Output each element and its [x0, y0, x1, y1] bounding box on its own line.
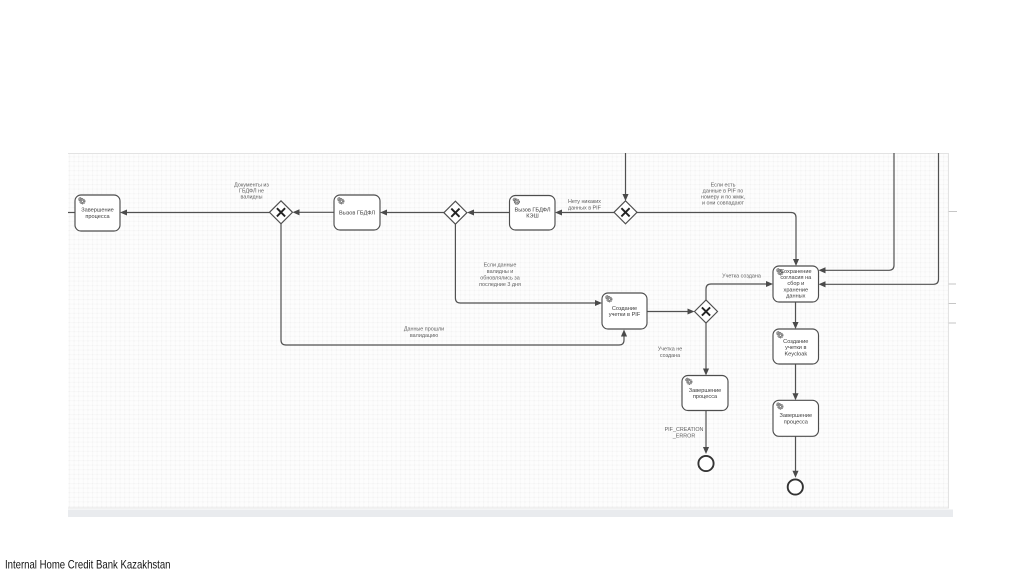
task SAVE: Сохранение согласия на сбор и хранение данных — [773, 266, 819, 302]
svg-text:процесса: процесса — [693, 394, 718, 400]
label: Если данные валидны и обновлялись за последние 3 дня — [479, 263, 521, 289]
arrowhead into task A — [120, 209, 127, 215]
label: Если есть данные в PIF по номеру и по жмж, и они совпадают — [701, 183, 746, 207]
svg-text:Вызов ГБДФЛ: Вызов ГБДФЛ — [339, 211, 375, 217]
wire G4 top then right into SAVE task left — [706, 284, 767, 300]
wire G3 right then down into SAVE task top — [637, 213, 796, 261]
wire stub into task A from canvas edge — [68, 212, 75, 214]
svg-text:и они совпадают: и они совпадают — [702, 201, 745, 207]
canvas background — [68, 153, 949, 509]
gateway G4 — [695, 300, 718, 323]
svg-text:Создание: Создание — [783, 339, 808, 345]
label: Учетка не создана — [658, 347, 682, 360]
task C: Вызов ГБДФЛ КЭШ — [510, 196, 556, 231]
wire KEY to END_R task — [795, 364, 797, 394]
svg-text:процесса: процесса — [85, 214, 110, 220]
wire G2 bottom into PIF task left — [455, 224, 596, 303]
gateway G3 — [614, 201, 637, 224]
arrowhead into G2 — [467, 209, 474, 215]
footer slide text — [0, 552, 300, 572]
wire END_L task to end event E1 — [705, 411, 707, 449]
svg-text:хранение: хранение — [784, 287, 809, 293]
wire V1 from top into SAVE task right — [825, 153, 895, 270]
task A: Завершение процесса — [75, 195, 120, 231]
svg-text:создана: создана — [660, 353, 680, 359]
arrowhead into SAVE right from V2 — [819, 281, 826, 287]
svg-text:валидацию: валидацию — [410, 333, 438, 339]
wire END_R task to end event E2 — [795, 436, 797, 471]
label: PIF_CREATION _ERROR — [665, 427, 704, 440]
right edge ticks — [949, 212, 958, 324]
arrowhead into G4 — [688, 308, 695, 314]
wire G1 bottom long path into PIF task bottom — [281, 224, 624, 345]
arrowhead into PIF left — [595, 300, 602, 306]
arrowhead into task B — [380, 209, 387, 215]
svg-text:Keycloak: Keycloak — [784, 352, 807, 358]
wire V2 from top into SAVE task right — [825, 153, 939, 284]
task PIF: Создание учетки в PIF — [602, 293, 647, 329]
arrowhead into G1 — [293, 209, 300, 215]
label: Нету никаких данных в PIF — [568, 199, 602, 212]
svg-text:данных: данных — [786, 294, 806, 300]
arrowhead into SAVE left — [766, 281, 773, 287]
label: Данные прошли валидацию — [404, 327, 444, 340]
arrowhead into PIF bottom — [621, 330, 627, 337]
wire SAVE to KEY — [795, 302, 797, 323]
svg-text:учетки в PIF: учетки в PIF — [609, 312, 641, 318]
gateway G1 — [270, 201, 293, 224]
wire G2 to task B — [386, 212, 444, 214]
svg-text:Internal Home Credit Bank Kaza: Internal Home Credit Bank Kazakhstan — [5, 558, 171, 572]
EDGE LABELS — [234, 183, 761, 440]
svg-text:учетки в: учетки в — [785, 345, 806, 351]
svg-text:процесса: процесса — [784, 419, 809, 425]
TASKS — [75, 195, 819, 436]
wire G3 to task C — [561, 212, 614, 214]
wire from top into G3 — [625, 153, 627, 195]
svg-text:Нету никаких: Нету никаких — [568, 199, 601, 205]
arrowhead into END_L top — [703, 369, 709, 376]
wire G4 bottom to END_L task — [705, 323, 707, 370]
svg-text:согласия на: согласия на — [780, 275, 812, 281]
GATEWAYS — [270, 201, 718, 323]
task KEY: Создание учетки в Keycloak — [773, 329, 819, 364]
task END_L: Завершение процесса — [682, 376, 728, 411]
arrowhead into E1 — [703, 447, 709, 454]
task B: Вызов ГБДФЛ — [334, 195, 380, 230]
arrowhead into SAVE right from V1 — [819, 267, 826, 273]
arrowhead into E2 — [792, 471, 798, 478]
svg-text:данных в PIF: данных в PIF — [568, 206, 602, 212]
svg-text:последние 3 дня: последние 3 дня — [479, 282, 521, 288]
wire task C to G2 — [473, 212, 510, 214]
svg-text:Вызов ГБДФЛ: Вызов ГБДФЛ — [515, 207, 551, 213]
task END_R: Завершение процесса — [773, 400, 819, 436]
arrowheads — [120, 194, 826, 478]
svg-text:_ERROR: _ERROR — [672, 434, 696, 440]
wire G1 to task A — [126, 212, 270, 214]
svg-text:валидны и: валидны и — [487, 269, 513, 275]
svg-text:обновлялись за: обновлялись за — [480, 276, 520, 282]
svg-text:Если данные: Если данные — [484, 263, 517, 269]
arrowhead into G3 from top — [622, 194, 628, 201]
wire task B to G1 — [299, 211, 334, 213]
arrowhead into task C — [555, 209, 562, 215]
svg-text:КЭШ: КЭШ — [526, 214, 538, 220]
svg-text:Данные прошли: Данные прошли — [404, 327, 444, 333]
svg-text:валидны: валидны — [241, 195, 263, 201]
svg-text:Создание: Создание — [612, 306, 637, 312]
svg-text:сбор и: сбор и — [787, 281, 804, 287]
arrowhead into END_R top — [792, 393, 798, 400]
svg-text:Завершение: Завершение — [689, 388, 722, 394]
svg-text:Завершение: Завершение — [81, 208, 114, 214]
bottom scrollbar bar — [68, 510, 953, 518]
gateway G2 — [444, 201, 467, 224]
wire PIF task to G4 — [647, 311, 689, 313]
svg-text:Учетка не: Учетка не — [658, 347, 682, 353]
svg-text:Учетка создана: Учетка создана — [722, 274, 761, 280]
svg-text:PIF_CREATION: PIF_CREATION — [665, 427, 704, 433]
end event E2 — [788, 479, 803, 494]
arrowhead into KEY top — [792, 322, 798, 329]
svg-text:Сохранение: Сохранение — [780, 269, 812, 275]
label: Документы из ГБДФЛ не валидны — [234, 183, 269, 201]
arrowhead into SAVE top — [793, 259, 799, 266]
end event E1 — [698, 456, 713, 471]
svg-text:Завершение: Завершение — [780, 413, 813, 419]
